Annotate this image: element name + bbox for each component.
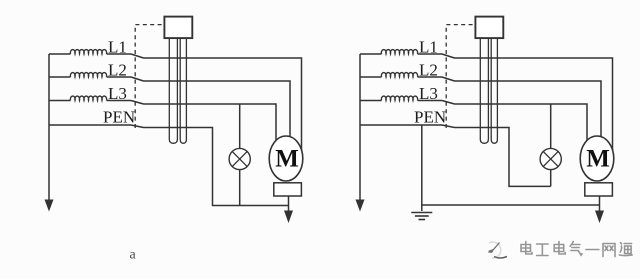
svg-text:L2: L2 — [108, 61, 127, 80]
svg-text:PEN: PEN — [103, 108, 135, 127]
svg-text:a: a — [130, 248, 137, 263]
svg-text:M: M — [586, 146, 610, 173]
svg-text:L3: L3 — [419, 84, 438, 103]
svg-text:L3: L3 — [108, 84, 127, 103]
svg-text:L1: L1 — [419, 38, 438, 57]
svg-text:M: M — [275, 146, 299, 173]
svg-text:PEN: PEN — [414, 108, 446, 127]
svg-text:L1: L1 — [108, 38, 127, 57]
svg-text:L2: L2 — [419, 61, 438, 80]
